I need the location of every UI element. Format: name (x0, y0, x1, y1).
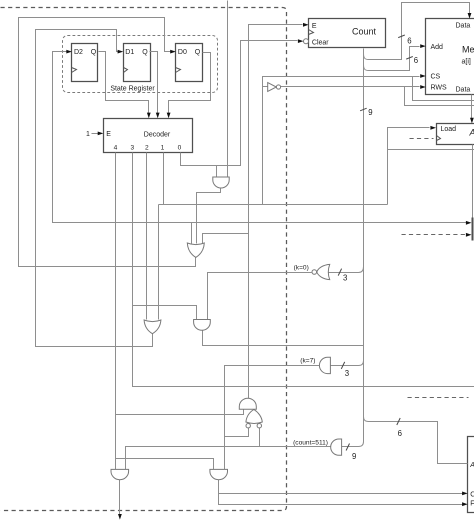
bus width slashes (338, 35, 413, 451)
wire: OR-c output to D1.D feedback (36, 30, 153, 347)
svg-text:State Register: State Register (110, 86, 155, 93)
clock triangles (72, 30, 441, 141)
arrow into decoder from D2.Q (147, 113, 151, 119)
wire: E net branch to OR-b right input (203, 234, 249, 244)
AND gate k=7 (left facing) (319, 357, 330, 373)
svg-text:3: 3 (130, 145, 134, 152)
svg-text:6: 6 (398, 429, 402, 438)
wire: left AND output arrow down (119, 480, 121, 515)
svg-text:Q: Q (142, 49, 148, 56)
svg-text:F: F (470, 501, 474, 508)
arrow into memory Add (420, 44, 426, 48)
right AND gate (bottom, drives C and F) (210, 469, 228, 479)
AND gate count=511 (left facing) (331, 439, 342, 455)
bubble right input of OR-e (257, 424, 261, 428)
state register dashed box (63, 36, 218, 93)
svg-text:Count: Count (352, 27, 377, 37)
svg-text:D1: D1 (125, 49, 134, 56)
wire: count bus branch to bottom adder (364, 417, 468, 464)
wire: D2.D input net from status line (53, 52, 467, 223)
AND gate d (down facing) (194, 320, 211, 331)
svg-text:1: 1 (161, 145, 165, 152)
arrow into count Clear bubble (298, 39, 304, 43)
register A box (437, 124, 474, 145)
bubble left input of OR-e (246, 424, 250, 428)
arrow into memory CS (420, 74, 426, 78)
arrow into decoder E (98, 132, 104, 136)
svg-text:9: 9 (352, 452, 356, 461)
svg-text:RWS: RWS (431, 85, 448, 92)
wire: count=511 gate input from count bus (342, 442, 364, 447)
svg-text:E: E (312, 23, 317, 30)
svg-text:1: 1 (86, 131, 90, 138)
arrow into register A top (470, 118, 474, 124)
svg-text:Add: Add (431, 44, 444, 51)
svg-text:9: 9 (368, 108, 372, 117)
svg-text:a[i]: a[i] (462, 59, 471, 66)
clock triangle Count (309, 30, 314, 35)
wire: dec1 net riser to Load (388, 128, 430, 205)
svg-text:Decoder: Decoder (144, 131, 171, 138)
svg-text:A: A (469, 128, 474, 138)
svg-text:D0: D0 (178, 49, 187, 56)
wire: D0.Q to decoder input (169, 53, 211, 114)
flip-flop D1 (124, 44, 151, 82)
flip-flop D2 (72, 44, 98, 82)
wire: k7 net branch to OR-e left bubble (225, 428, 249, 437)
gates (111, 39, 342, 480)
svg-text:Q: Q (195, 49, 201, 56)
wire: count bus branch to memory Data in (364, 3, 470, 60)
wire: stub into inverter input (263, 86, 268, 88)
dashed signal wires (402, 139, 469, 398)
AND gate f (up facing, drives counter E) (239, 398, 256, 409)
svg-text:D2: D2 (74, 49, 83, 56)
wire: count=511 gate output net (126, 447, 331, 470)
slash 3 k7 (341, 362, 344, 369)
wire: decoder3 branch to AND-d left input (133, 306, 197, 320)
slash 9 bottom (346, 444, 349, 451)
wire: inverter output RWS line (281, 86, 420, 88)
svg-text:Clear: Clear (312, 39, 329, 46)
wire: dashed arrow into comparator (402, 234, 466, 236)
clock triangle register A (437, 136, 441, 141)
wire: count bus vertical (363, 49, 365, 442)
flip-flop D0 (176, 44, 203, 82)
counter Clear bubble (304, 39, 309, 44)
OR gate c (down facing) (144, 320, 161, 334)
inverter triangle (268, 83, 277, 92)
wire: k=7 gate output net (225, 366, 320, 470)
svg-text:A: A (469, 462, 474, 469)
svg-text:(count=511): (count=511) (293, 440, 328, 447)
svg-text:CS: CS (431, 74, 441, 81)
count box (309, 19, 386, 48)
wire: AND-f left input stub (243, 410, 245, 415)
svg-text:3: 3 (345, 369, 349, 378)
wire: decoder4 branch to right AND gate left input (116, 459, 214, 470)
svg-text:(k=7): (k=7) (300, 357, 315, 364)
main boxes group placeholder (72, 19, 474, 513)
wire: D1.Q to decoder input (150, 52, 158, 114)
wire: k=7 gate input from count bus (331, 361, 364, 366)
clock triangle D1 (124, 68, 128, 73)
wire: long vertical from top into AND-a right input (227, 1, 229, 177)
arrow into D2.D (66, 50, 72, 54)
wire: AND-f output to counter E net (249, 25, 303, 400)
wire: OR-b output to D0.D feedback (19, 18, 196, 267)
wire: dec1 net riser to CS (263, 77, 420, 205)
svg-text:(k=0): (k=0) (294, 265, 309, 272)
left AND gate (bottom, drives down arrow) (111, 469, 129, 479)
arrow into decoder from D1.Q (156, 113, 160, 119)
wire: stub dec0 into AND-a left input (216, 166, 218, 177)
svg-text:Data: Data (456, 23, 471, 30)
arrow into memory Data top (468, 13, 472, 19)
slash 3 k0 (338, 269, 341, 276)
clock triangle D0 (176, 68, 181, 73)
wire: decoder output 2 to OR-c left input (146, 153, 148, 320)
arrow into D1.D (118, 50, 124, 54)
wire: dashed clock stub at bottom right (408, 397, 469, 399)
svg-text:E: E (106, 131, 111, 138)
slash 6 bottom (397, 418, 400, 425)
AND gate a (down facing, below decoder 0 line) (213, 177, 229, 188)
OR gate b (down facing, 3-input) (187, 243, 204, 257)
wire: decoder output 4 net (115, 153, 117, 470)
inverter bubble (276, 85, 280, 89)
wire: memory data out to register A (471, 95, 473, 119)
arrow into bottom box F (462, 502, 468, 506)
svg-text:4: 4 (114, 145, 118, 152)
NOR gate k=0 (left facing) (317, 264, 330, 279)
wire: count bus branch to memory Add (364, 47, 420, 71)
wire: clock dashed into register A (410, 138, 434, 140)
svg-text:Memory: Memory (462, 45, 474, 55)
svg-text:6: 6 (414, 56, 418, 65)
wire: c511 net stub to OR-e right bubble (259, 428, 261, 447)
svg-text:3: 3 (343, 274, 347, 283)
arrow into register A Load (430, 126, 436, 130)
slash 6 top (398, 35, 405, 38)
bubble of k=0 gate (312, 270, 317, 275)
svg-text:C: C (470, 492, 474, 499)
wire: k=0 gate input from count bus (329, 267, 364, 273)
memory box (426, 19, 474, 95)
arrow into comparator solid (466, 221, 472, 225)
svg-text:Data: Data (456, 87, 471, 94)
svg-text:0: 0 (178, 145, 182, 152)
bottom right datapath box (468, 437, 474, 513)
wire: stub into OR-b left input (191, 223, 193, 244)
wire: AND-d output to count bus tap (203, 331, 364, 346)
arrow into decoder from D0.Q (167, 113, 171, 119)
arrow into comparator dashed (466, 233, 472, 237)
wire: decoder output 1 net with jog (159, 153, 388, 320)
OR gate e (up facing with inverted inputs) (246, 410, 262, 424)
wire: D2.Q to decoder input (99, 52, 149, 114)
arrow into memory RWS (420, 85, 426, 89)
svg-text:Load: Load (441, 126, 457, 133)
wire: RWS branch to right datapath (405, 87, 474, 106)
arrow into bottom box C (462, 492, 468, 496)
wire: dec1 net branch to right datapath (388, 149, 474, 151)
svg-text:2: 2 (145, 145, 149, 152)
arrow controller output down at bottom (118, 514, 122, 520)
clock triangle D2 (72, 68, 77, 73)
wire: CS branch to right datapath (413, 77, 474, 101)
slash 9 count (360, 108, 367, 111)
wire: register A output down to comparator (472, 145, 474, 218)
svg-text:Q: Q (91, 49, 97, 56)
wire: k=0 gate output to AND-d right input (208, 273, 312, 320)
controller dashed boundary (1, 8, 287, 511)
arrow into D0.D (170, 50, 176, 54)
decoder box (104, 119, 193, 153)
svg-text:6: 6 (407, 37, 411, 46)
slash 6 mid (406, 57, 413, 60)
wire: k7 net branch to AND-f left input line (224, 414, 226, 416)
arrow into count E (303, 23, 309, 27)
wire: decoder output 3 net (133, 153, 474, 387)
wire: decoder output 0 net to counter Clear (181, 41, 298, 166)
wire: AND-a output to OR-b middle input (197, 189, 221, 244)
wire: right AND output to C and F inputs (219, 480, 463, 505)
wire: decoder4 branch to AND-f left input (116, 410, 244, 415)
wire: constant 1 into decoder E (92, 133, 99, 135)
comparator bar at right edge (472, 218, 474, 241)
